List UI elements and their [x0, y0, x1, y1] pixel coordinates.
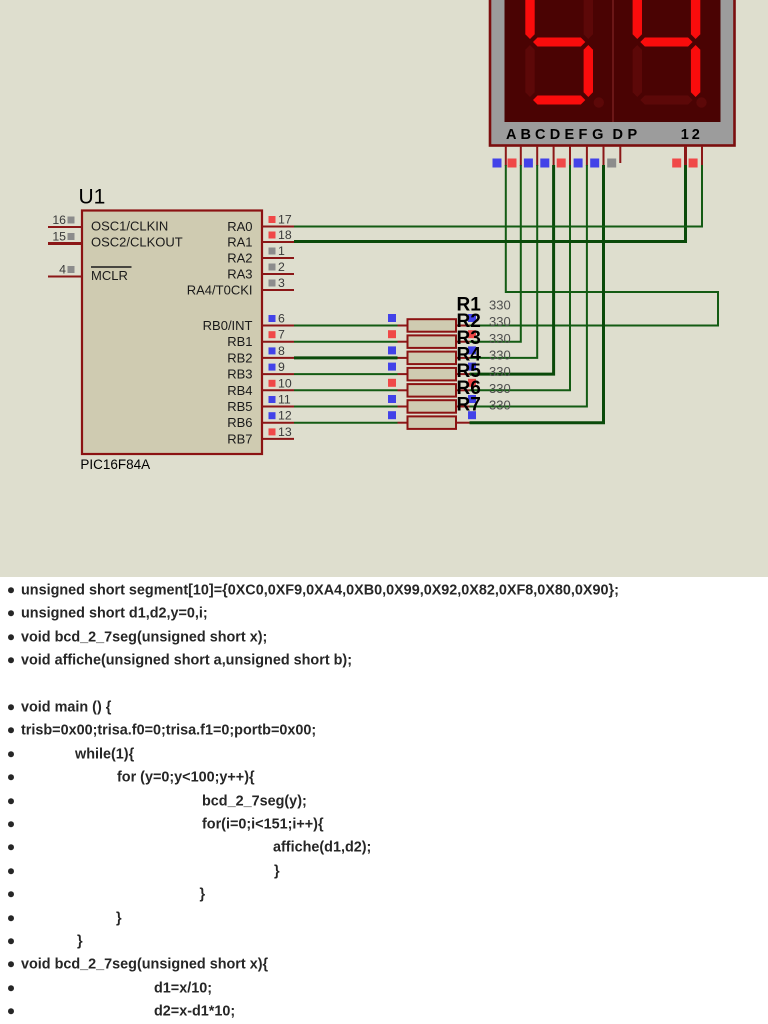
svg-text:D: D — [550, 127, 560, 143]
svg-text:RA2: RA2 — [227, 251, 252, 266]
resistor R3 — [388, 346, 476, 364]
svg-text:4: 4 — [59, 263, 66, 277]
resistor R6 — [388, 395, 476, 413]
svg-text:330: 330 — [489, 364, 511, 379]
svg-text:U1: U1 — [79, 186, 106, 209]
svg-text:13: 13 — [278, 425, 292, 439]
U1 pin 4 (left) — [48, 263, 82, 277]
wire segment E net: display E to R5 — [470, 165, 571, 390]
MCLR overline — [91, 266, 132, 268]
svg-text:330: 330 — [489, 314, 511, 329]
svg-text:7: 7 — [278, 328, 285, 342]
right digit segment F (lit) — [633, 0, 642, 39]
left digit segment D (lit) — [533, 96, 585, 105]
7-segment display body — [490, 0, 735, 146]
wire segment F net: display F to R6 — [470, 165, 587, 407]
U1 pin 1 (right) — [262, 244, 294, 258]
left digit segment C (lit) — [584, 45, 593, 97]
display pin G — [590, 146, 603, 168]
wire segment C net: display C to R3 — [470, 165, 538, 358]
U1 pin 17 (right) — [262, 213, 294, 227]
svg-text:12: 12 — [278, 409, 292, 423]
svg-text:8: 8 — [278, 344, 285, 358]
resistor R2 — [388, 330, 476, 348]
display pin 2 — [689, 146, 702, 168]
svg-text:OSC1/CLKIN: OSC1/CLKIN — [91, 219, 168, 234]
svg-text:RB7: RB7 — [227, 431, 252, 446]
resistor R4 — [388, 363, 476, 381]
svg-text:RB0/INT: RB0/INT — [203, 318, 253, 333]
svg-text:B: B — [521, 127, 531, 143]
svg-text:330: 330 — [489, 347, 511, 362]
wire segment RB3 to R4 — [294, 373, 398, 375]
svg-text:9: 9 — [278, 360, 285, 374]
resistor R5 — [388, 379, 476, 397]
svg-text:2: 2 — [692, 127, 700, 143]
display pin D — [540, 146, 553, 168]
left digit decimal point (unlit) — [594, 97, 604, 107]
U1 pin 13 (right) — [262, 425, 294, 439]
wire segment RB0 to R1 — [294, 325, 398, 327]
svg-text:16: 16 — [52, 213, 66, 227]
U1 pin 11 (right) — [262, 393, 294, 407]
wire segment B net: display B to R2 — [470, 165, 521, 342]
svg-text:P: P — [628, 127, 638, 143]
U1 pin 15 (left) — [48, 230, 82, 244]
svg-text:PIC16F84A: PIC16F84A — [80, 457, 150, 472]
display pin B — [508, 146, 521, 168]
svg-text:R7: R7 — [457, 394, 481, 415]
svg-text:RA1: RA1 — [227, 235, 252, 250]
left digit segment E (unlit) — [525, 45, 534, 97]
svg-text:E: E — [565, 127, 575, 143]
svg-text:OSC2/CLKOUT: OSC2/CLKOUT — [91, 235, 183, 250]
right digit segment G (lit) — [640, 38, 692, 47]
right digit segment B (lit) — [691, 0, 700, 39]
wire segment A net: display A to R1 via right detour — [470, 165, 719, 326]
U1 pin names — [91, 219, 253, 447]
right digit segment D (unlit) — [640, 96, 692, 105]
svg-text:F: F — [579, 127, 588, 143]
svg-text:A: A — [506, 127, 517, 143]
display pin E — [557, 146, 570, 168]
svg-text:RB2: RB2 — [227, 350, 252, 365]
U1 pin 2 (right) — [262, 260, 294, 274]
right digit segment C (lit) — [691, 45, 700, 97]
U1 pin 9 (right) — [262, 360, 294, 374]
wire segment display pin 2 to RA0 — [294, 165, 702, 227]
svg-text:15: 15 — [52, 230, 66, 244]
left digit segment F (lit) — [525, 0, 534, 39]
left digit segment B (unlit) — [584, 0, 593, 39]
U1 pin 3 (right) — [262, 276, 294, 290]
display pin A — [493, 146, 506, 168]
wire segment display pin 1 to RA1 — [294, 165, 686, 242]
wire segment RB1 to R2 — [294, 341, 398, 343]
U1 pin 7 (right) — [262, 328, 294, 342]
svg-text:1: 1 — [278, 244, 285, 258]
U1 pin 18 (right) — [262, 228, 294, 242]
right digit decimal point (unlit) — [696, 97, 706, 107]
display pin F — [574, 146, 587, 168]
svg-text:RA3: RA3 — [227, 267, 252, 282]
svg-text:RB1: RB1 — [227, 334, 252, 349]
svg-text:3: 3 — [278, 276, 285, 290]
display pin C — [524, 146, 537, 168]
left digit segment G (lit) — [533, 38, 585, 47]
display pin labels ABCDEFG DP 1 2 — [506, 127, 700, 143]
wire segment RB2 to R3 — [294, 356, 398, 359]
wire segment RB4 to R5 — [294, 389, 398, 391]
svg-text:11: 11 — [278, 393, 291, 407]
svg-text:RA4/T0CKI: RA4/T0CKI — [187, 283, 253, 298]
svg-text:RB6: RB6 — [227, 415, 252, 430]
U1 pin 8 (right) — [262, 344, 294, 358]
svg-text:RA0: RA0 — [227, 219, 252, 234]
U1 pin 10 (right) — [262, 376, 294, 390]
svg-text:G: G — [592, 127, 603, 143]
resistor R1 — [388, 314, 476, 332]
U1 pin 6 (right) — [262, 312, 294, 326]
svg-text:RB5: RB5 — [227, 399, 252, 414]
U1 pin 12 (right) — [262, 409, 294, 423]
microcontroller U1 body — [82, 211, 262, 455]
svg-text:RB4: RB4 — [227, 383, 252, 398]
svg-text:D: D — [613, 127, 623, 143]
svg-text:17: 17 — [278, 213, 292, 227]
svg-text:RB3: RB3 — [227, 367, 252, 382]
svg-text:18: 18 — [278, 228, 292, 242]
svg-text:330: 330 — [489, 331, 511, 346]
display pin DP (unconnected) — [607, 146, 620, 168]
wire segment RB5 to R6 — [294, 406, 398, 408]
wire segment RB6 to R7 — [294, 422, 398, 424]
svg-text:6: 6 — [278, 312, 285, 326]
svg-text:330: 330 — [489, 381, 511, 396]
svg-text:MCLR: MCLR — [91, 268, 128, 283]
display pin 1 — [672, 146, 685, 168]
svg-text:C: C — [535, 127, 546, 143]
svg-text:2: 2 — [278, 260, 285, 274]
wire segment D net: display D to R4 — [470, 165, 554, 374]
wire segment G net: display G to R7 — [470, 165, 604, 423]
right digit segment E (unlit) — [633, 45, 642, 97]
U1 pin 16 (left) — [48, 213, 82, 227]
svg-text:330: 330 — [489, 298, 511, 313]
resistor R7 — [388, 411, 476, 429]
svg-text:10: 10 — [278, 376, 292, 390]
svg-text:330: 330 — [489, 397, 511, 412]
svg-text:1: 1 — [681, 127, 689, 143]
